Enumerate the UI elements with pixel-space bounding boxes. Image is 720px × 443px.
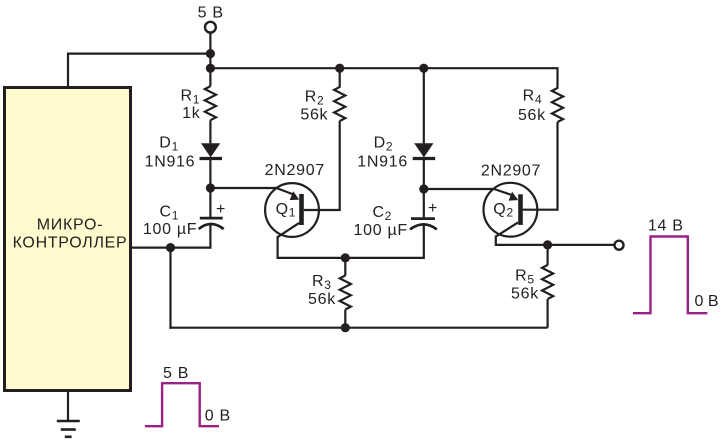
wire: to microcontroller top	[68, 54, 210, 86]
microcontroller box	[5, 88, 131, 391]
svg-text:1N916: 1N916	[145, 154, 196, 171]
svg-text:56k: 56k	[511, 286, 539, 303]
svg-text:0 В: 0 В	[205, 407, 231, 424]
diode D1	[145, 135, 222, 171]
svg-text:56k: 56k	[518, 107, 546, 124]
wire: rail down to D2	[423, 68, 425, 143]
svg-text:+: +	[428, 200, 438, 217]
node: junction D2 / C2 / Q2 emitter	[419, 184, 428, 193]
svg-text:МИКРО-: МИКРО-	[37, 217, 103, 234]
wire: emitter wire to Q2	[424, 188, 495, 190]
svg-text:56k: 56k	[308, 291, 336, 308]
output waveform 14 V pulse	[633, 217, 719, 313]
resistor R5	[511, 245, 553, 328]
resistor R1	[180, 86, 216, 122]
resistor R3	[308, 258, 351, 328]
wire: D2 to C2	[423, 159, 425, 218]
node: junction R5 top	[543, 240, 552, 249]
wire: junction down to bottom rail	[169, 248, 171, 329]
svg-text:100 µF: 100 µF	[143, 221, 197, 238]
transistor Q2	[481, 163, 541, 237]
wire: Q2 collector to output	[496, 236, 614, 245]
wire: R1 to D1	[209, 120, 211, 143]
node: junction R3 bottom	[341, 323, 350, 332]
node: junction 5V line / micro wire	[206, 49, 215, 58]
ground	[57, 392, 80, 437]
node: junction R3 top	[341, 253, 350, 262]
capacitor C1	[143, 201, 226, 238]
node: junction rail at R2	[335, 64, 344, 73]
output terminal	[615, 241, 624, 250]
wire: Q2 base to R4	[523, 122, 558, 210]
svg-text:1k: 1k	[182, 105, 201, 122]
wire: Q1 collector down and right to C2 bottom	[278, 225, 424, 258]
svg-text:2N2907: 2N2907	[481, 163, 541, 180]
wire: C1 down and left to microcontroller	[131, 225, 210, 248]
wire: D1 to C1	[209, 159, 211, 218]
svg-text:+: +	[216, 201, 226, 218]
diode D2	[357, 135, 435, 171]
capacitor C2	[354, 200, 439, 239]
node: junction D1 / C1 / Q1 emitter	[206, 183, 215, 192]
svg-text:КОНТРОЛЛЕР: КОНТРОЛЛЕР	[13, 235, 128, 252]
wire: 5V terminal down to R1	[209, 33, 211, 87]
resistor R2	[300, 68, 345, 124]
wire: Q1 base to R2	[304, 121, 340, 210]
wire: emitter wire to Q1	[210, 187, 277, 189]
node: junction on micro wire	[166, 243, 175, 252]
input waveform 5 V pulse	[145, 365, 231, 426]
svg-text:14 В: 14 В	[648, 217, 684, 234]
svg-text:1N916: 1N916	[357, 154, 408, 171]
svg-text:56k: 56k	[300, 107, 328, 124]
transistor Q1	[265, 162, 325, 237]
wire: bottom rail	[169, 327, 547, 329]
svg-text:5 В: 5 В	[163, 365, 189, 382]
svg-text:0 В: 0 В	[695, 293, 719, 310]
node: junction rail at D2	[419, 64, 428, 73]
resistor R4	[518, 67, 563, 124]
5 V supply terminal	[198, 5, 224, 33]
node: junction rail left	[206, 64, 215, 73]
svg-text:100 µF: 100 µF	[354, 222, 408, 239]
svg-text:2N2907: 2N2907	[265, 162, 325, 179]
wire: top supply rail	[210, 67, 557, 69]
svg-text:5 В: 5 В	[198, 5, 224, 22]
